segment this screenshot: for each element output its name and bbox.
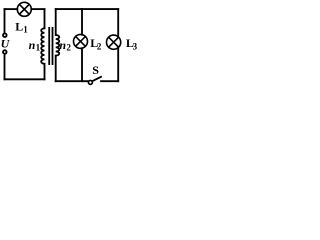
- svg-text:2: 2: [66, 42, 71, 52]
- svg-text:n: n: [29, 38, 36, 52]
- wire secondary bottom rail right of switch: [101, 80, 118, 82]
- transformer primary coil n1: [41, 28, 44, 64]
- svg-text:3: 3: [133, 42, 138, 52]
- wire top between L1 and primary corner: [31, 8, 44, 10]
- wire secondary left vertical bottom: [55, 56, 57, 82]
- wire left vertical below bottom terminal: [4, 54, 6, 79]
- wire L3 branch right vertical bottom: [117, 48, 119, 81]
- svg-text:U: U: [1, 36, 11, 50]
- lamp L2: [74, 34, 88, 48]
- transformer secondary coil n2: [56, 35, 60, 56]
- wire primary right vertical bottom: [44, 64, 46, 80]
- wire L2 branch vertical top: [81, 9, 83, 35]
- wire secondary left vertical top: [55, 9, 57, 35]
- wire L3 branch right vertical top: [117, 9, 119, 36]
- switch S terminal circle: [88, 80, 92, 84]
- lamp L3: [107, 35, 121, 49]
- svg-text:n: n: [59, 38, 66, 52]
- switch S blade: [92, 76, 102, 81]
- lamp L1: [17, 2, 31, 16]
- wire primary right vertical top: [44, 9, 46, 28]
- wire left vertical above top terminal: [4, 9, 6, 33]
- transformer core line right: [52, 27, 54, 65]
- svg-text:1: 1: [36, 43, 41, 53]
- wire secondary top rail: [56, 8, 118, 10]
- transformer core line left: [48, 27, 50, 65]
- svg-text:S: S: [92, 63, 99, 77]
- terminal top (U): [3, 33, 7, 37]
- wire L2 branch vertical bottom: [81, 48, 83, 81]
- wire top-left horizontal: [5, 8, 18, 10]
- wire secondary bottom rail left of switch: [56, 80, 89, 82]
- wire primary bottom rail: [5, 78, 45, 80]
- svg-text:2: 2: [97, 41, 102, 51]
- terminal bottom (U): [3, 50, 7, 54]
